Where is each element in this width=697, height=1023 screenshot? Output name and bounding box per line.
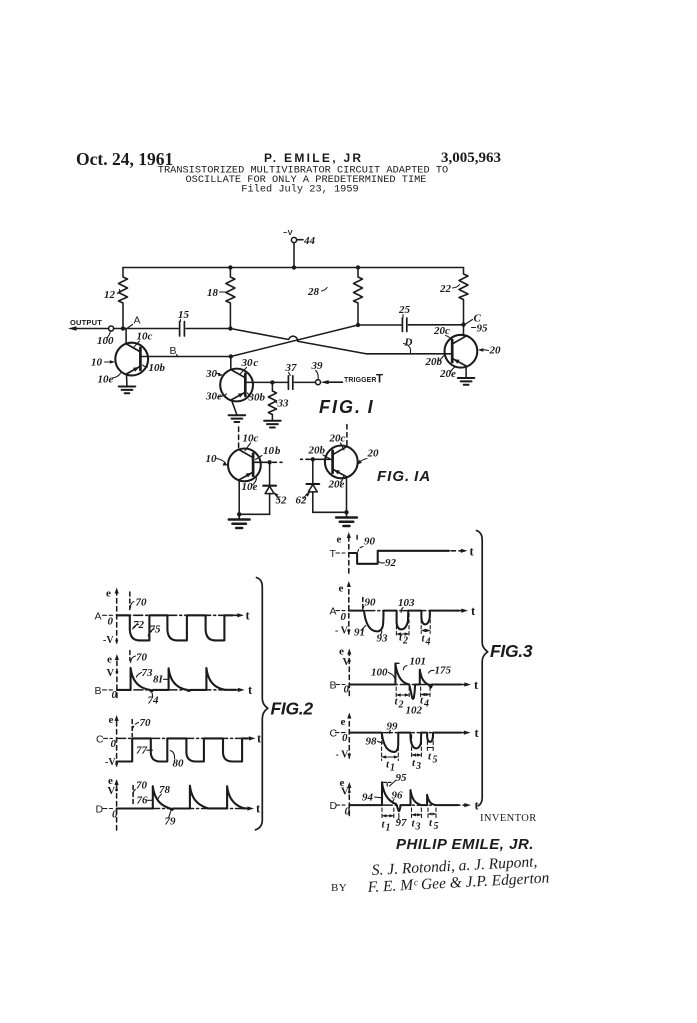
svg-text:t: t xyxy=(471,604,476,618)
plot D t arrow xyxy=(455,804,467,806)
plot C zero dashdot xyxy=(117,737,247,739)
svg-text:PHILIP EMILE, JR.: PHILIP EMILE, JR. xyxy=(396,836,534,853)
svg-text:V: V xyxy=(343,657,351,668)
tick 98 xyxy=(378,741,383,743)
t4 guides (3B) xyxy=(421,687,430,698)
plot C t arrow xyxy=(458,732,466,734)
tick 30c xyxy=(240,368,247,375)
svg-text:4: 4 xyxy=(425,637,431,648)
tick 12 xyxy=(118,290,120,294)
svg-text:74: 74 xyxy=(148,695,160,707)
plot A t arrow xyxy=(231,614,240,616)
wire Q30 collector xyxy=(230,357,232,370)
dashes D label (3D) xyxy=(336,804,345,806)
svg-text:0: 0 xyxy=(341,611,347,623)
tick D xyxy=(404,344,411,354)
plot D axis e xyxy=(116,783,118,830)
tick 22 xyxy=(453,285,460,289)
svg-text:103: 103 xyxy=(398,597,415,609)
tick 37 xyxy=(289,373,291,376)
tick 28 xyxy=(322,288,328,292)
wire emitter right down xyxy=(346,477,348,513)
svg-text:e: e xyxy=(339,646,344,658)
tick 81 xyxy=(164,678,169,680)
tick 74 xyxy=(151,693,154,698)
svg-text:FIG. IA: FIG. IA xyxy=(377,468,431,485)
wire Q30 base xyxy=(245,381,272,383)
svg-text:2: 2 xyxy=(402,636,408,647)
t4 guides (3A) xyxy=(421,614,430,634)
plot T axis e xyxy=(348,536,350,573)
node emitter-rail right xyxy=(344,510,348,514)
tick C xyxy=(466,320,473,325)
wire cap15 to node xyxy=(186,328,230,330)
svg-text:e: e xyxy=(109,714,114,726)
svg-text:INVENTOR: INVENTOR xyxy=(480,813,537,824)
tick 44 xyxy=(297,239,303,241)
ground Q10 xyxy=(119,387,136,394)
wire collector dashed right xyxy=(346,425,348,446)
svg-text:97: 97 xyxy=(396,817,408,829)
resistor R28 xyxy=(354,268,363,326)
wire output line xyxy=(74,328,178,330)
tick 90 (3T) xyxy=(358,547,363,552)
svg-text:T: T xyxy=(330,548,337,560)
svg-text:95: 95 xyxy=(477,323,489,335)
wire base to node xyxy=(253,461,270,463)
diode D52 xyxy=(263,485,276,487)
svg-text:0: 0 xyxy=(344,684,350,696)
svg-text:30b: 30b xyxy=(248,392,266,404)
transistor Q20 xyxy=(445,335,478,368)
svg-text:- V: - V xyxy=(336,750,350,761)
svg-text:20: 20 xyxy=(489,345,502,357)
svg-text:3: 3 xyxy=(415,761,421,772)
tick 76 xyxy=(148,799,153,801)
diode D62 xyxy=(306,483,319,485)
dashes B label xyxy=(103,689,113,691)
svg-text:e: e xyxy=(106,588,111,600)
wire Q10 collector xyxy=(123,329,126,344)
svg-text:70: 70 xyxy=(136,597,148,609)
svg-text:0: 0 xyxy=(112,809,118,821)
plot A trigger dashed 70 xyxy=(129,592,131,610)
tick 72 xyxy=(133,624,139,629)
t1 guides (3C) xyxy=(382,735,399,761)
svg-text:0: 0 xyxy=(108,616,114,628)
tick 15 xyxy=(180,320,182,322)
peak tick 101 mark xyxy=(395,662,399,664)
node under R28 xyxy=(356,323,360,327)
svg-text:93: 93 xyxy=(377,633,389,645)
tick 20c(1a) xyxy=(341,443,345,450)
svg-text:28: 28 xyxy=(307,286,320,298)
svg-text:3: 3 xyxy=(415,822,421,833)
wire Q30 emitter xyxy=(231,400,236,415)
svg-text:70: 70 xyxy=(136,780,148,792)
plot A zero dashdot xyxy=(349,610,459,612)
terminal 39 xyxy=(316,380,321,385)
svg-text:10: 10 xyxy=(206,453,218,465)
svg-text:Filed July 23, 1959: Filed July 23, 1959 xyxy=(241,184,358,196)
t3 guides (3C) xyxy=(412,735,422,758)
svg-text:OUTPUT: OUTPUT xyxy=(70,318,102,327)
wire Q20 emitter xyxy=(465,366,467,377)
tick 90 (3A) xyxy=(363,607,364,611)
wire node to diode 62 xyxy=(312,459,314,483)
node supply junction xyxy=(292,265,296,269)
resistor R33 xyxy=(268,382,276,420)
svg-text:15: 15 xyxy=(178,309,190,321)
wire trigger xyxy=(327,381,343,383)
tick 30e xyxy=(219,394,227,397)
plot C axis e xyxy=(348,717,350,759)
wire bottom rail right xyxy=(313,511,347,513)
capacitor C15 xyxy=(180,322,185,337)
svg-text:V: V xyxy=(341,787,349,798)
plot B t arrow xyxy=(458,684,467,686)
wire Q10 emitter xyxy=(126,374,128,386)
svg-text:0: 0 xyxy=(111,738,117,750)
plot D axis e xyxy=(348,786,350,816)
tick 73 xyxy=(136,673,141,678)
plot D trigger dashed 70 xyxy=(132,786,134,807)
tick 79 xyxy=(169,812,171,819)
svg-text:0: 0 xyxy=(342,732,348,744)
svg-text:3,005,963: 3,005,963 xyxy=(441,150,501,166)
tick 175 xyxy=(429,670,434,673)
svg-text:- V: - V xyxy=(335,626,349,637)
tick 95 xyxy=(390,781,396,787)
tick 78 xyxy=(158,794,162,800)
svg-text:33: 33 xyxy=(277,398,290,410)
OUTPUT arrow xyxy=(68,326,77,330)
plot B zero dashdot xyxy=(349,684,461,686)
dashes C label xyxy=(104,737,113,739)
svg-text:72: 72 xyxy=(133,619,145,631)
ground fig1a right xyxy=(346,512,348,517)
node B junction xyxy=(229,354,233,358)
node R28 top xyxy=(356,265,360,269)
tick 10(1a) arrow xyxy=(217,459,226,464)
tick 80 xyxy=(170,751,174,759)
brace FIG.2 xyxy=(256,578,268,830)
svg-text:30: 30 xyxy=(205,368,218,380)
svg-text:100: 100 xyxy=(371,667,388,679)
t2 guides (3B) xyxy=(396,687,409,699)
tick B xyxy=(177,355,179,357)
wire top rail xyxy=(123,267,464,269)
wire R33 node to cap37 xyxy=(272,381,288,383)
tick 10e(1a) xyxy=(253,478,257,485)
svg-text:1: 1 xyxy=(390,763,395,774)
svg-text:20c: 20c xyxy=(433,325,450,337)
svg-text:10b: 10b xyxy=(149,362,166,374)
tick A xyxy=(128,325,133,329)
wire supply to rail xyxy=(293,243,295,268)
node R18 top xyxy=(228,265,232,269)
plot B zero dashdot xyxy=(117,689,236,691)
plot B axis e xyxy=(116,658,118,698)
node R33 top xyxy=(270,380,274,384)
svg-text:4: 4 xyxy=(423,699,429,710)
transistor Q30 xyxy=(220,369,253,402)
svg-text:99: 99 xyxy=(387,721,399,733)
wire collector dashed xyxy=(238,427,240,449)
svg-text:V: V xyxy=(107,668,115,679)
plot D zero dashdot xyxy=(117,808,245,810)
svg-text:−V: −V xyxy=(283,228,293,237)
wire base to node right xyxy=(313,458,333,460)
svg-text:0: 0 xyxy=(345,806,351,818)
tick 70 (2D) xyxy=(133,790,135,795)
svg-text:73: 73 xyxy=(142,667,154,679)
svg-text:70: 70 xyxy=(140,717,152,729)
svg-text:10 b: 10 b xyxy=(263,445,281,457)
dashes T label xyxy=(336,552,345,554)
svg-text:12: 12 xyxy=(104,289,116,301)
tick 20b(1a) xyxy=(323,455,330,459)
node emitter-rail xyxy=(237,512,241,516)
svg-text:10c: 10c xyxy=(137,331,153,343)
plot C axis e xyxy=(116,719,118,766)
plot B axis e xyxy=(348,653,350,696)
tick 70 (2A) xyxy=(130,602,134,608)
trigger arrow xyxy=(321,380,329,384)
svg-text:D: D xyxy=(330,800,338,812)
tick 10b xyxy=(143,365,148,367)
plot A zero dashdot xyxy=(117,614,234,616)
wire base dashed stub right xyxy=(301,458,310,460)
tick 10c(1a) xyxy=(245,443,251,451)
tick 20c xyxy=(446,336,452,341)
plot A axis e xyxy=(116,592,118,644)
tick 30 arrow xyxy=(217,373,220,375)
svg-text:92: 92 xyxy=(385,557,397,569)
plot A t arrow xyxy=(456,610,464,612)
tick 103 xyxy=(401,608,403,613)
svg-text:101: 101 xyxy=(410,656,427,668)
svg-text:90: 90 xyxy=(364,536,376,548)
svg-text:FIG. I: FIG. I xyxy=(319,397,375,417)
svg-text:FIG.3: FIG.3 xyxy=(490,641,533,661)
t3 guides (3D) xyxy=(412,808,422,818)
node A xyxy=(121,326,125,330)
tick 96 xyxy=(393,800,394,804)
node base junction left xyxy=(267,460,271,464)
plot B waveform xyxy=(349,664,461,699)
t1 guides (3D) xyxy=(382,808,394,820)
transistor 10 (fig1a) xyxy=(228,449,261,482)
tick 20b xyxy=(440,356,445,361)
svg-text:175: 175 xyxy=(435,665,452,677)
svg-text:t: t xyxy=(474,678,479,692)
svg-text:75: 75 xyxy=(150,624,162,636)
tick 92 xyxy=(379,562,384,563)
svg-text:70: 70 xyxy=(136,652,148,664)
dashes B label (3B) xyxy=(336,684,345,686)
svg-text:98: 98 xyxy=(366,736,378,748)
svg-text:94: 94 xyxy=(362,792,374,804)
plot B trigger dashed 70 xyxy=(129,651,131,661)
wire node to diode xyxy=(269,462,271,485)
plot D t arrow xyxy=(242,808,250,810)
tick 30b xyxy=(248,393,251,397)
svg-text:25: 25 xyxy=(398,304,411,316)
svg-text:20c: 20c xyxy=(329,433,346,445)
wire Q20 collector xyxy=(463,325,465,336)
svg-text:76: 76 xyxy=(137,795,149,807)
svg-text:20e: 20e xyxy=(439,368,456,380)
plot T waveform xyxy=(349,551,449,564)
plot C t arrow xyxy=(244,737,252,739)
wire node to cap25 xyxy=(358,324,402,326)
capacitor C37 xyxy=(288,376,292,390)
svg-text:A: A xyxy=(134,315,141,327)
svg-text:10e: 10e xyxy=(98,374,114,386)
svg-text:B: B xyxy=(330,680,337,692)
dashes A label xyxy=(103,614,113,616)
label -V xyxy=(70,228,501,417)
dashes C label (3C) xyxy=(336,732,346,734)
wire cap25 to node C xyxy=(408,324,463,326)
transistor 20 (fig1a) xyxy=(325,446,358,479)
svg-text:A: A xyxy=(330,606,337,618)
svg-text:t: t xyxy=(429,817,433,829)
svg-text:44: 44 xyxy=(303,235,316,247)
svg-text:20: 20 xyxy=(367,448,380,460)
svg-text:80: 80 xyxy=(173,758,185,770)
svg-text:e: e xyxy=(337,534,342,546)
resistor R18 xyxy=(226,268,235,329)
svg-text:t: t xyxy=(257,732,262,746)
svg-text:BY: BY xyxy=(331,882,347,894)
capacitor C25 xyxy=(402,318,406,332)
tick 93 xyxy=(381,631,382,635)
tick 52 arrow xyxy=(276,495,280,500)
svg-text:B: B xyxy=(95,685,102,697)
brace FIG.3 xyxy=(477,531,488,806)
t2 guides (3A) xyxy=(396,614,409,638)
plot B t arrow xyxy=(233,689,241,691)
tick 101 xyxy=(403,666,407,670)
tick 20 arrow xyxy=(481,349,489,352)
svg-text:e: e xyxy=(341,716,346,728)
resistor R22 xyxy=(459,268,468,325)
node base junction right xyxy=(311,457,315,461)
svg-text:t: t xyxy=(475,726,480,740)
svg-text:FIG.2: FIG.2 xyxy=(271,699,314,719)
tick 10e xyxy=(113,373,122,379)
ground Q30 xyxy=(229,415,246,422)
ground fig1a left xyxy=(238,514,240,519)
ground R33 xyxy=(264,421,281,428)
plot A waveform xyxy=(349,611,459,632)
svg-text:10: 10 xyxy=(91,357,103,369)
plot A trigger dashed 90 xyxy=(362,598,364,609)
svg-text:79: 79 xyxy=(165,816,177,828)
tick 91 xyxy=(361,626,366,631)
peak bracket 95 xyxy=(384,782,392,787)
svg-text:0: 0 xyxy=(112,689,118,701)
dashes D label xyxy=(103,808,113,810)
svg-text:95: 95 xyxy=(396,772,408,784)
plot T dashes to arrow xyxy=(451,550,462,552)
t5 guides (3D) xyxy=(428,808,436,818)
tick 20(1a) arrow xyxy=(360,459,368,463)
svg-text:t: t xyxy=(428,751,432,763)
svg-text:8I: 8I xyxy=(153,674,164,686)
svg-text:22: 22 xyxy=(439,283,452,295)
svg-text:30 c: 30 c xyxy=(241,357,259,369)
svg-text:5: 5 xyxy=(433,755,438,766)
svg-text:77: 77 xyxy=(136,745,148,757)
tick 10 arrow xyxy=(105,361,113,363)
wire diode62 to rail xyxy=(312,492,314,512)
tick 33 xyxy=(275,401,278,404)
tick 70 (2C) xyxy=(133,723,139,729)
wire cross L1 (A side to D) with hop xyxy=(230,329,452,354)
ground Q20 xyxy=(458,378,475,385)
plot A waveform xyxy=(117,615,233,640)
supply terminal 44 xyxy=(291,237,296,242)
svg-text:37: 37 xyxy=(285,362,298,374)
svg-text:B: B xyxy=(170,345,177,357)
wire emitter down xyxy=(238,480,240,515)
svg-text:C: C xyxy=(96,734,104,746)
svg-text:1: 1 xyxy=(386,823,391,834)
svg-text:V: V xyxy=(108,786,116,797)
tick 39 xyxy=(316,371,319,380)
plot C waveform xyxy=(349,733,461,752)
svg-text:100: 100 xyxy=(97,335,114,347)
plot C trigger dashed 70 xyxy=(131,720,133,737)
terminal 100 xyxy=(109,326,114,331)
wire diode to rail xyxy=(269,494,271,515)
plot C zero dashdot xyxy=(349,732,461,734)
svg-text:TRIGGER: TRIGGER xyxy=(344,377,377,384)
svg-text:P. EMILE, JR: P. EMILE, JR xyxy=(264,151,363,165)
wire cross L2 (B to under R28) xyxy=(231,325,358,357)
svg-text:C: C xyxy=(330,728,338,740)
plot A axis e xyxy=(348,585,350,634)
tick 94 xyxy=(375,796,382,799)
tick 95 xyxy=(472,327,476,329)
wire bottom rail left xyxy=(239,513,269,515)
tick 77 xyxy=(147,749,153,751)
plot D waveform xyxy=(117,786,246,810)
svg-text:-V: -V xyxy=(105,757,116,768)
plot D waveform xyxy=(349,782,458,811)
svg-text:20b: 20b xyxy=(425,356,443,368)
wire cap37 to terminal 39 xyxy=(294,381,315,383)
tick 10c xyxy=(134,341,140,348)
tick 100 xyxy=(108,332,111,338)
node under R18 xyxy=(228,326,232,330)
resistor R12 xyxy=(119,268,128,329)
tick 97 xyxy=(398,814,400,820)
svg-text:t: t xyxy=(246,609,251,623)
t5 guides (3C) xyxy=(427,735,433,751)
plot C waveform xyxy=(117,738,248,761)
svg-text:e: e xyxy=(107,654,112,666)
plot B waveform xyxy=(117,668,236,691)
tick 75 xyxy=(148,629,154,636)
svg-text:e: e xyxy=(339,583,344,595)
svg-text:2: 2 xyxy=(398,700,404,711)
wire base dashed stub xyxy=(273,461,283,463)
svg-text:D: D xyxy=(96,804,104,816)
